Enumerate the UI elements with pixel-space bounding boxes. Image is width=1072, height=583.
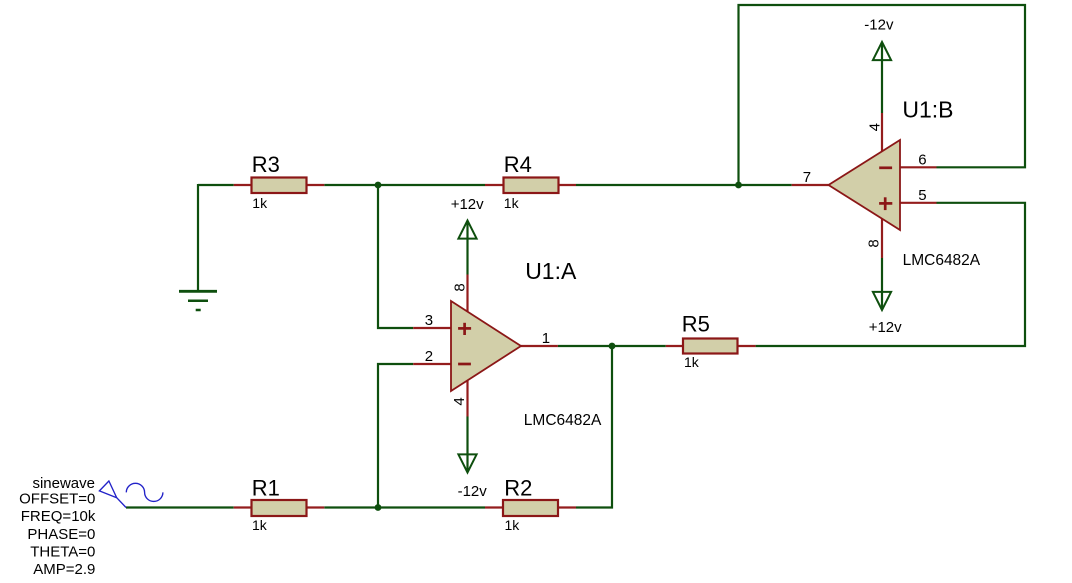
svg-text:LMC6482A: LMC6482A xyxy=(524,412,602,429)
svg-text:6: 6 xyxy=(918,152,926,169)
svg-text:+12v: +12v xyxy=(869,319,902,336)
svg-text:-12v: -12v xyxy=(864,16,894,33)
svg-text:4: 4 xyxy=(451,397,468,405)
svg-text:8: 8 xyxy=(451,283,468,291)
svg-text:5: 5 xyxy=(918,187,926,204)
svg-text:2: 2 xyxy=(425,348,433,365)
svg-text:3: 3 xyxy=(425,312,433,329)
svg-text:7: 7 xyxy=(803,169,811,186)
svg-text:8: 8 xyxy=(866,239,883,247)
svg-text:1k: 1k xyxy=(504,195,520,211)
svg-text:1: 1 xyxy=(542,330,550,347)
svg-text:U1:B: U1:B xyxy=(902,97,953,123)
svg-text:1k: 1k xyxy=(684,354,700,370)
svg-text:+12v: +12v xyxy=(451,196,484,213)
svg-text:1k: 1k xyxy=(252,517,268,533)
svg-text:U1:A: U1:A xyxy=(525,258,577,284)
svg-text:AMP=2.9: AMP=2.9 xyxy=(33,561,95,578)
svg-text:4: 4 xyxy=(866,123,883,131)
svg-text:R4: R4 xyxy=(504,152,532,177)
svg-text:R5: R5 xyxy=(682,312,710,337)
svg-text:sinewave: sinewave xyxy=(32,475,95,492)
svg-text:THETA=0: THETA=0 xyxy=(30,544,95,561)
svg-text:R3: R3 xyxy=(252,152,280,177)
svg-text:LMC6482A: LMC6482A xyxy=(903,252,981,269)
svg-text:-12v: -12v xyxy=(458,483,488,500)
svg-text:OFFSET=0: OFFSET=0 xyxy=(19,490,95,507)
svg-text:1k: 1k xyxy=(505,517,521,533)
svg-text:R2: R2 xyxy=(504,475,532,500)
svg-text:1k: 1k xyxy=(252,195,268,211)
svg-text:R1: R1 xyxy=(252,475,280,500)
svg-text:FREQ=10k: FREQ=10k xyxy=(21,508,96,525)
svg-text:PHASE=0: PHASE=0 xyxy=(27,526,95,543)
